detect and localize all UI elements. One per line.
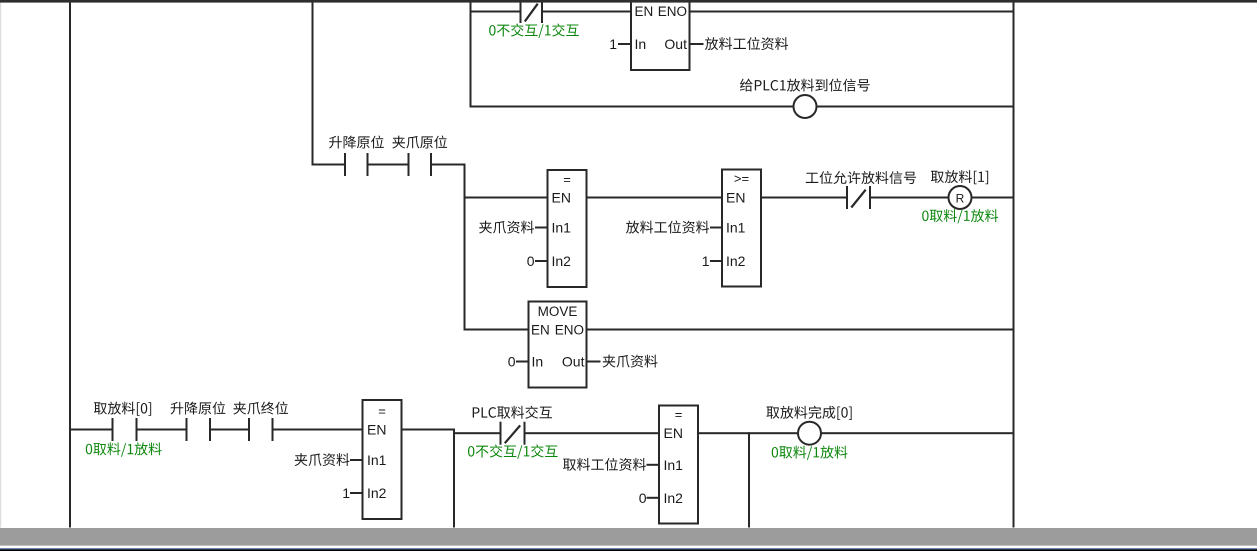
svg-text:ENO: ENO [658,4,687,19]
svg-text:EN: EN [367,422,386,438]
svg-text:EN: EN [664,425,683,441]
svg-text:MOVE: MOVE [538,304,578,319]
svg-text:In1: In1 [726,220,746,236]
svg-text:0: 0 [639,490,647,506]
svg-text:In2: In2 [664,490,684,506]
svg-text:R: R [956,191,965,205]
svg-text:Out: Out [562,354,585,370]
svg-text:EN: EN [635,4,654,19]
svg-text:0: 0 [508,354,516,370]
svg-text:0: 0 [527,253,535,269]
svg-text:In: In [635,36,647,52]
svg-text:In1: In1 [664,457,684,473]
svg-text:=: = [378,404,386,419]
svg-text:In: In [532,354,544,370]
svg-text:>=: >= [734,171,749,186]
svg-text:EN: EN [726,190,745,206]
svg-text:In2: In2 [367,485,387,501]
svg-text:EN: EN [531,322,550,337]
svg-text:ENO: ENO [555,322,584,337]
svg-text:In2: In2 [552,253,572,269]
svg-text:=: = [563,172,571,187]
svg-text:1: 1 [702,253,710,269]
svg-text:1: 1 [342,485,350,501]
svg-text:Out: Out [664,36,687,52]
svg-text:In2: In2 [726,253,746,269]
svg-text:=: = [675,407,683,422]
svg-text:In1: In1 [552,220,572,236]
svg-text:In1: In1 [367,452,387,468]
svg-text:EN: EN [552,190,571,206]
svg-text:1: 1 [609,36,617,52]
